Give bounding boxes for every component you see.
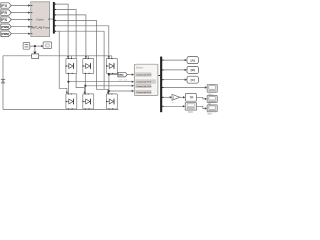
- arrowhead into gain: [170, 96, 172, 98]
- arrowhead into controller from P2: [28, 11, 31, 13]
- arrowhead gate Q4: [66, 92, 68, 94]
- wire bus to tag A: [162, 59, 185, 61]
- wire gate g1 demux to upper switch Q1 gate: [55, 4, 68, 57]
- arrowhead gate Q1: [67, 56, 69, 58]
- From tag [P1]: [1, 3, 12, 8]
- arrowhead into measurement port4: [132, 90, 134, 92]
- switch Q6 lower col3: [106, 94, 117, 110]
- gain block K1: [172, 94, 180, 100]
- svg-text:[B]: [B]: [191, 68, 195, 72]
- node phase C lower junction: [108, 90, 110, 92]
- wire gate g5 demux to upper switch Q3 gate: [55, 26, 109, 57]
- wire junction to scope B: [35, 45, 42, 47]
- svg-text:[C]: [C]: [191, 78, 195, 82]
- wire tag to measurement block port1: [127, 74, 131, 76]
- wire phase C lower branch to measurement block port4: [109, 90, 132, 92]
- arrowhead into tag C: [185, 79, 187, 81]
- wire phase C midpoint: [108, 74, 110, 94]
- bus bar mux M1: [160, 57, 162, 113]
- wire gate g2 demux to lower switch Q5 gate: [55, 10, 85, 93]
- wire gate g4 demux to lower switch Q6 gate: [55, 20, 108, 92]
- wire measurement block to bus: [158, 75, 160, 77]
- wire bus to gain: [162, 96, 169, 98]
- From tag [P3]: [1, 17, 12, 22]
- svg-text:[PWM]: [PWM]: [1, 25, 9, 29]
- wire DC negative bottom rail: [3, 109, 119, 111]
- svg-text:Connection Port: Connection Port: [136, 85, 151, 88]
- wire tag PWM1 to controller: [11, 26, 29, 28]
- svg-text:Connection Port: Connection Port: [136, 81, 151, 84]
- wire phase C to tag: [109, 74, 118, 76]
- svg-text:SOC: SOC: [188, 112, 193, 114]
- arrowhead gate Q6: [107, 92, 109, 94]
- battery symbol on left leg: [1, 79, 5, 83]
- svg-text:MATLAB Func: MATLAB Func: [31, 26, 51, 30]
- node phase A junction: [67, 81, 69, 83]
- wire SOC to scope3: [196, 106, 204, 108]
- junction node DC: [34, 45, 36, 47]
- svg-text:[P2]: [P2]: [1, 11, 7, 15]
- wire tag PWM2 to controller: [11, 33, 29, 35]
- wire phase B to measurement block: [85, 85, 131, 87]
- wire tag P3 to controller: [11, 19, 29, 21]
- From tag [PWM1]: [1, 24, 12, 29]
- wire controller to demux: [50, 18, 54, 20]
- From tag [PWM2]: [1, 31, 12, 36]
- wire collector stub Q3: [111, 56, 113, 59]
- svg-text:TR: TR: [190, 96, 194, 100]
- wire collector stub Q2: [87, 56, 89, 59]
- wire phase B midpoint: [84, 74, 86, 94]
- wire tag P2 to controller: [11, 12, 29, 14]
- controller block U1 MATLAB Function: [31, 2, 51, 37]
- scope block S1: [207, 84, 217, 92]
- wire DC negative left leg: [2, 56, 4, 110]
- arrowhead into measurement port3: [132, 85, 134, 87]
- arrowhead down into current measurement: [33, 52, 36, 55]
- arrowhead into controller from PWM1: [28, 26, 31, 28]
- wire DC positive rail: [3, 55, 112, 57]
- block TR: [185, 93, 196, 101]
- wire bus to scope1: [162, 87, 205, 89]
- arrowhead into measurement port2: [132, 81, 134, 83]
- Goto tag phase C Iabc: [118, 72, 127, 77]
- arrowhead into scope B: [41, 45, 43, 47]
- DC source block A: [23, 43, 30, 50]
- arrowhead into SOC block: [183, 105, 185, 107]
- arrowhead into scope2: [205, 98, 207, 100]
- arrowhead into tag B: [185, 69, 187, 71]
- arrowhead gate Q2: [85, 56, 87, 58]
- svg-text:[A]: [A]: [191, 58, 195, 62]
- wire source to junction: [30, 45, 35, 47]
- wire gate g6 stub branch: [59, 31, 104, 89]
- display block SOC: [185, 103, 196, 110]
- measurement subsystem block: [134, 64, 158, 95]
- wire bus to tag B: [162, 69, 185, 71]
- wire tag P1 to controller: [11, 5, 29, 7]
- current measurement box on rail: [32, 54, 39, 59]
- svg-text:Connection Port: Connection Port: [136, 74, 151, 77]
- From tag [P2]: [1, 10, 12, 15]
- wire bus to tag C: [162, 79, 185, 81]
- wire collector stub Q1: [70, 56, 72, 59]
- arrowhead gate Q3: [108, 56, 110, 58]
- svg-text:Battery: Battery: [136, 66, 144, 69]
- Goto tag [A]: [187, 57, 198, 64]
- arrowhead into TR: [183, 96, 185, 98]
- scope block S2: [207, 95, 217, 102]
- svg-text:[P1]: [P1]: [1, 4, 7, 8]
- Goto tag [B]: [187, 66, 198, 73]
- arrowhead into tag A: [185, 59, 187, 61]
- wire phase A midpoint: [67, 74, 69, 94]
- wire TR to scope2: [196, 97, 204, 99]
- switch Q3 upper col3: [106, 58, 117, 74]
- svg-text:Gates: Gates: [36, 17, 44, 21]
- arrowhead into scope3: [205, 107, 207, 109]
- switch Q2 upper col2: [82, 58, 93, 74]
- switch Q5 lower col2: [82, 94, 93, 110]
- wire phase A to measurement block: [68, 81, 131, 83]
- wire gain to TR block: [180, 96, 183, 98]
- svg-text:Iabc: Iabc: [118, 73, 124, 77]
- arrowhead into controller from P1: [28, 4, 31, 6]
- switch Q1 upper col1: [66, 58, 77, 74]
- svg-text:[PWM]: [PWM]: [1, 32, 9, 36]
- demux D1: [53, 2, 55, 34]
- wire gate g6 demux to lower switch Q4 gate: [55, 31, 67, 92]
- svg-text:-K-: -K-: [172, 102, 175, 104]
- arrowhead into controller from P3: [28, 18, 31, 20]
- wire junction down to current box: [34, 46, 36, 52]
- scope block S3: [207, 105, 217, 112]
- wire bus to SOC block: [162, 105, 183, 107]
- switch Q4 lower col1: [66, 94, 77, 110]
- arrowhead gate Q5: [84, 92, 86, 94]
- node phase B junction: [84, 85, 86, 87]
- node phase C junction: [108, 74, 110, 76]
- arrowhead into controller from PWM2: [28, 33, 31, 35]
- wire gate g3 demux to upper switch Q2 gate: [55, 15, 86, 57]
- scope block B: [43, 42, 52, 49]
- arrowhead into scope1: [205, 86, 207, 88]
- svg-text:term. volt: term. volt: [119, 78, 128, 81]
- svg-text:Connection Port: Connection Port: [136, 91, 151, 94]
- arrowhead into measurement port1: [132, 73, 134, 75]
- svg-text:[P3]: [P3]: [1, 18, 7, 22]
- Goto tag [C]: [187, 76, 198, 83]
